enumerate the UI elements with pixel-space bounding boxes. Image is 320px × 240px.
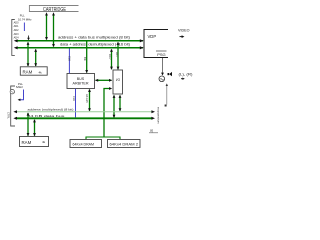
headphone wire [165, 83, 168, 106]
svg-text:4k: 4k [39, 70, 43, 74]
wire b2-RAM2 [33, 119, 36, 136]
svg-text:expansion: expansion [156, 107, 160, 124]
clock arrow into address bus [27, 36, 30, 41]
svg-text:AD0: AD0 [14, 21, 19, 24]
wire arbiter-I/O (horizontal) [95, 79, 112, 82]
svg-text:CTRL: CTRL [6, 112, 10, 119]
main RAM U1 [20, 67, 47, 75]
svg-text:A0-7: A0-7 [115, 52, 119, 58]
audio wire [162, 58, 164, 74]
expansion connector J1 [12, 20, 15, 56]
connector J2 (left tall bracket) [11, 86, 15, 126]
video arrow glyph [180, 35, 185, 38]
wire b1-RAM2 [27, 112, 30, 136]
svg-text:I/O: I/O [116, 78, 121, 82]
note (underlined) [149, 129, 158, 133]
svg-text:CARTRIDGE: CARTRIDGE [43, 7, 67, 13]
clock PLL U8 label [18, 13, 32, 21]
address bus (top) [14, 39, 144, 42]
wire bus2-RAM [34, 49, 37, 67]
VDP U4 [144, 30, 168, 58]
svg-text:A0-A15: A0-A15 [85, 94, 89, 103]
wire bus1-arbiter [85, 42, 88, 74]
bus arbiter U2 [67, 74, 95, 89]
svg-text:CLK: CLK [72, 96, 76, 101]
clock wire bus2-arbiter (blue) [68, 49, 70, 74]
svg-text:RAM: RAM [22, 140, 32, 145]
svg-text:AD4: AD4 [14, 37, 19, 40]
svg-text:CLK: CLK [68, 56, 72, 61]
speaker icon [168, 72, 173, 76]
wire b2-I/O (L-path) [104, 87, 112, 118]
svg-text:a): a) [150, 129, 153, 133]
vram riser [103, 119, 105, 137]
wire cartridge-bus1 [45, 12, 48, 40]
svg-text:(L), (R): (L), (R) [179, 72, 193, 76]
svg-text:AD1: AD1 [14, 25, 19, 28]
audio arrowhead [161, 73, 164, 76]
VRAM bank 1 U6 [70, 140, 102, 148]
wire bus1-RAM [27, 42, 30, 67]
svg-text:64 KB data bus: 64 KB data bus [28, 114, 66, 118]
PSG (inside VDP) [156, 51, 167, 57]
work RAM U5 [20, 137, 49, 147]
svg-text:PLL: PLL [20, 13, 25, 17]
mic symbol [10, 90, 14, 94]
audio jack [159, 76, 165, 82]
svg-text:D0-7: D0-7 [108, 54, 112, 60]
clock wire arbiter-b1 (blue) [75, 89, 77, 118]
data bus (bottom b2) [13, 117, 155, 120]
svg-text:64Kx4 DRAM 2: 64Kx4 DRAM 2 [110, 142, 139, 146]
data bus (top) [14, 46, 144, 49]
cartridge slot CN1 [29, 6, 78, 13]
svg-text:10.74 MHz: 10.74 MHz [18, 17, 32, 21]
svg-text:VDP: VDP [148, 34, 157, 39]
wire bus2-I/O [110, 49, 113, 70]
clock wire (blue) [23, 23, 25, 32]
svg-text:BR: BR [83, 57, 87, 61]
vram fork [86, 137, 120, 139]
svg-text:AD2: AD2 [14, 29, 19, 32]
clock wire J2 (blue) [18, 90, 24, 102]
svg-text:PSG: PSG [157, 52, 165, 57]
wire I/O-b2 [113, 95, 116, 118]
svg-text:ARBITER: ARBITER [73, 82, 90, 86]
svg-text:64Kx4 DRAM: 64Kx4 DRAM [73, 142, 95, 146]
svg-text:4k: 4k [42, 140, 46, 144]
svg-text:BUS: BUS [77, 77, 85, 81]
svg-text:AD3: AD3 [14, 33, 19, 36]
I/O controller U3 [113, 70, 123, 94]
wire arbiter-b1 (green) [88, 89, 91, 112]
svg-text:address + data bus multiplexed: address + data bus multiplexed (8 bit) [58, 36, 130, 40]
wire I/O-b1 [119, 95, 122, 112]
svg-text:VIDEO: VIDEO [178, 28, 190, 32]
VRAM bank 2 U7 [108, 140, 141, 148]
svg-text:MHz: MHz [16, 85, 24, 89]
svg-text:RAM: RAM [23, 70, 33, 75]
audio arrow glyph [181, 78, 185, 80]
svg-text:address (multiplexed) (8 bit): address (multiplexed) (8 bit) [28, 108, 74, 112]
PLL2 labels [16, 82, 24, 89]
J1 pin labels [14, 21, 19, 39]
wire bus1-I/O [117, 42, 120, 70]
wire cartridge-bus2 [52, 12, 55, 47]
svg-text:data + address demultiplexed (: data + address demultiplexed (+16 bit) [60, 43, 130, 47]
address bus (bottom b1, pale) [13, 110, 155, 113]
